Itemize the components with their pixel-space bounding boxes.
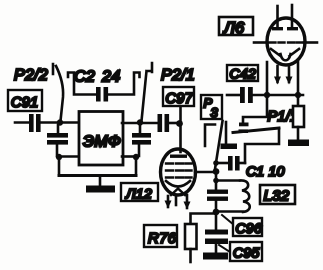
filter block EMF bbox=[79, 112, 123, 166]
svg-text:ЭМФ: ЭМФ bbox=[83, 134, 121, 151]
tube L12 grids (dashed) bbox=[166, 164, 192, 178]
svg-text:С224: С224 bbox=[74, 69, 120, 86]
svg-text:С95: С95 bbox=[233, 245, 260, 261]
label L32 (boxed) bbox=[260, 185, 295, 204]
tube L12 heater lead left with arrow bbox=[167, 196, 170, 207]
resistor R76 bbox=[185, 224, 197, 249]
tube L6 grid lead left bbox=[254, 41, 267, 44]
node C1 branch bbox=[213, 160, 219, 166]
wire input line left bbox=[15, 121, 30, 124]
wire arm to C1 bbox=[245, 129, 279, 163]
tube L6 grid (dashed) bbox=[270, 41, 303, 43]
tube L6 top lead 1 bbox=[276, 6, 279, 27]
node L32 bottom junction bbox=[213, 209, 220, 216]
wire left down to rail bbox=[58, 158, 61, 176]
tube L12 cathode lead bbox=[175, 197, 178, 205]
svg-text:С96: С96 bbox=[236, 220, 263, 236]
switch P1/1 fixed contact bar bbox=[239, 123, 249, 127]
capacitor C42 (series) bbox=[240, 87, 253, 103]
svg-text:Л6: Л6 bbox=[223, 20, 244, 37]
label C95 (boxed) pointer bbox=[219, 245, 230, 252]
tube L6 heater lead right with arrow bbox=[288, 66, 291, 82]
switch contact P2/2 bbox=[53, 64, 63, 121]
wire right down to rail bbox=[135, 158, 138, 176]
wire R76 bottom stem bbox=[189, 249, 192, 262]
node grid junction bbox=[176, 120, 183, 127]
capacitor C91 (series, on input line) bbox=[29, 114, 41, 132]
switch P1/1 contact pad bbox=[225, 122, 228, 146]
tube L12 heater bbox=[171, 189, 185, 196]
label C96 (boxed) pointer bbox=[222, 215, 234, 225]
node right of EMF bbox=[137, 119, 143, 125]
capacitor C97 (series to grid) bbox=[158, 114, 170, 132]
capacitor right shunt bbox=[139, 125, 140, 156]
ground under EMF bbox=[99, 177, 102, 186]
wire C95 to ground bbox=[215, 244, 218, 253]
inductor L32 bbox=[240, 180, 250, 212]
wire C96 to node2 bbox=[215, 201, 218, 212]
ground under C95 bbox=[203, 253, 228, 260]
switch P1/1 arm bbox=[233, 128, 279, 133]
svg-text:Р2/1: Р2/1 bbox=[161, 67, 195, 84]
ground under resistor bbox=[288, 140, 309, 147]
svg-text:С42: С42 bbox=[230, 66, 257, 82]
switch P3 fixed contact bracket bbox=[205, 125, 215, 147]
wire bypass left riser and hook bbox=[68, 73, 96, 95]
wire bypass right riser and hook bbox=[109, 73, 140, 95]
switch P3 arm bbox=[215, 121, 223, 169]
resistor R (of P1/1 branch) bbox=[293, 106, 304, 127]
node C42 right junction bbox=[295, 92, 301, 98]
wire tube L12 plate to node bbox=[195, 171, 216, 174]
wire C42 line right bbox=[253, 94, 303, 97]
capacitor C96 bbox=[207, 190, 228, 201]
capacitor C2 (series, bypass) bbox=[96, 87, 108, 102]
svg-text:С110: С110 bbox=[246, 163, 285, 179]
label L12 (boxed) bbox=[121, 183, 158, 201]
wire C42 line left bbox=[227, 94, 239, 97]
node right shunt bottom bbox=[133, 154, 139, 160]
tube L12 heater lead right with arrow bbox=[186, 195, 189, 208]
label C42 (boxed) bbox=[227, 65, 258, 81]
wire resistor bottom bbox=[297, 127, 300, 140]
wire C1 right bbox=[240, 162, 246, 165]
label C91 (boxed) bbox=[8, 90, 42, 111]
wire EMF right to grid cap bbox=[122, 122, 157, 125]
label L6 (boxed) bbox=[219, 17, 253, 35]
tube L6 anode bar 2 bbox=[287, 27, 298, 30]
wire cap to grid node bbox=[169, 122, 181, 125]
wire lower pin right into EMF bbox=[122, 155, 134, 158]
svg-text:С91: С91 bbox=[11, 95, 39, 111]
svg-text:3: 3 bbox=[211, 105, 219, 120]
node C42 left junction bbox=[264, 92, 270, 98]
wire tube L6 left bottom lead down bbox=[243, 62, 267, 122]
wire lower pin left into EMF bbox=[61, 155, 77, 158]
svg-text:Р2/2: Р2/2 bbox=[14, 67, 48, 84]
tube L6 envelope bbox=[267, 18, 305, 65]
wire grid lead vertical bbox=[179, 107, 182, 152]
node L32 top junction bbox=[213, 178, 219, 184]
wire input to EMF box bbox=[41, 121, 77, 124]
node plate junction bbox=[213, 168, 220, 175]
svg-text:R76: R76 bbox=[148, 230, 177, 247]
switch contact P2/1 bbox=[142, 63, 153, 121]
tube L6 cathode bbox=[271, 49, 299, 60]
label C97 (boxed) bbox=[163, 87, 194, 106]
svg-text:С97: С97 bbox=[166, 91, 194, 107]
wire tube L6 right bottom lead down to resistor bbox=[297, 60, 300, 106]
capacitor C95 bbox=[205, 230, 228, 245]
wire node2 to R76 bbox=[191, 214, 217, 225]
tube L6 grid lead right bbox=[304, 41, 317, 44]
wire node vertical down from plate junction bbox=[215, 172, 218, 189]
svg-text:Л12: Л12 bbox=[125, 186, 152, 202]
tube L6 anode bar 1 bbox=[272, 27, 283, 30]
label P3 (boxed) bbox=[201, 95, 222, 119]
node left input junction bbox=[57, 119, 63, 125]
wire node to C1 bbox=[216, 162, 227, 165]
label R76 (boxed) bbox=[144, 225, 177, 247]
tube L6 top lead 2 bbox=[291, 5, 294, 27]
capacitor left shunt bbox=[57, 125, 58, 156]
inductor L32 top link bbox=[216, 179, 240, 182]
tube L12 cathode bbox=[166, 181, 190, 187]
tube L12 anode bbox=[170, 155, 187, 158]
inductor L32 bottom link bbox=[216, 210, 243, 213]
tube L12 envelope bbox=[161, 149, 196, 195]
wire bottom rail bbox=[59, 174, 136, 177]
node left shunt bottom bbox=[56, 154, 62, 160]
svg-text:L32: L32 bbox=[264, 188, 290, 205]
tube L6 heater lead left with arrow bbox=[276, 66, 279, 82]
capacitor C1 (series) bbox=[228, 156, 240, 171]
wire node2 down to C95 bbox=[215, 212, 218, 229]
